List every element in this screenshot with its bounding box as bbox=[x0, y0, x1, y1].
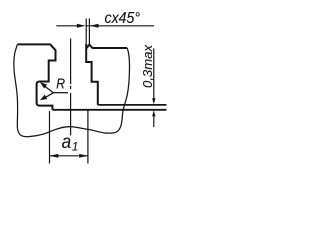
chamfer extension line 1 bbox=[85, 18, 87, 44]
chamfer and right block top surface bbox=[86, 45, 127, 49]
R leader upper arrow bbox=[45, 87, 53, 93]
R leader shelf bbox=[53, 92, 68, 94]
a1 right arrowhead bbox=[79, 154, 88, 158]
upper long line (part edge) bbox=[98, 104, 167, 106]
svg-text:1: 1 bbox=[72, 142, 78, 154]
svg-text:a: a bbox=[62, 132, 72, 153]
0,3max upper arrow bbox=[153, 49, 155, 99]
right break line bbox=[115, 48, 130, 133]
svg-text:0,3max: 0,3max bbox=[140, 45, 155, 88]
chamfer dimension left arrow bbox=[56, 25, 78, 27]
chamfer extension line 2 bbox=[88, 18, 90, 44]
svg-text:cx45°: cx45° bbox=[105, 10, 141, 27]
lower long line (part edge) bbox=[52, 109, 166, 111]
chamfer dimension line crossing between extension lines bbox=[86, 25, 90, 27]
svg-text:R: R bbox=[56, 76, 65, 92]
0,3max lower arrow bbox=[153, 116, 155, 127]
a1 left arrowhead bbox=[50, 154, 59, 158]
bottom wavy break line bbox=[18, 127, 115, 137]
R leader lower arrow bbox=[45, 93, 53, 98]
chamfer dimension right arrow with shelf bbox=[90, 25, 154, 27]
left break line bbox=[14, 44, 18, 128]
a1 extension line left bbox=[49, 111, 51, 164]
right block inner stepped contour bbox=[86, 44, 98, 105]
left block contour bbox=[17, 44, 55, 109]
a1 dimension line bbox=[50, 155, 88, 157]
a1 extension line right bbox=[87, 111, 89, 164]
centerline (axis) bbox=[70, 39, 72, 85]
